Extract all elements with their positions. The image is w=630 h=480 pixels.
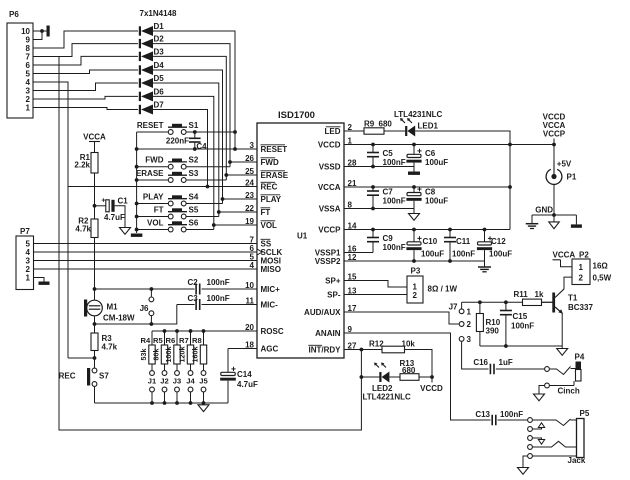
svg-text:C3: C3 bbox=[188, 294, 199, 303]
svg-text:MISO: MISO bbox=[261, 265, 281, 274]
svg-text:P1: P1 bbox=[567, 173, 577, 182]
label U1 bbox=[297, 232, 308, 241]
svg-text:220nF: 220nF bbox=[166, 137, 189, 146]
svg-text:ROSC: ROSC bbox=[261, 327, 284, 336]
svg-text:19: 19 bbox=[245, 217, 254, 226]
svg-text:18: 18 bbox=[245, 340, 254, 349]
wire VCCP row bbox=[344, 228, 510, 232]
wire FT row bbox=[219, 211, 257, 213]
svg-text:VSSP2: VSSP2 bbox=[315, 257, 341, 266]
svg-text:J1: J1 bbox=[148, 377, 157, 386]
U1 left pin 24 REC bbox=[245, 178, 278, 191]
wire J7.1 riser bbox=[461, 302, 463, 308]
svg-text:+: + bbox=[101, 198, 105, 205]
resistor R2 bbox=[75, 206, 98, 238]
wire R1 to node bbox=[94, 173, 96, 206]
svg-text:BC337: BC337 bbox=[568, 303, 593, 312]
wire D4 anode to x=222.5 bbox=[153, 70, 223, 204]
svg-text:P6: P6 bbox=[9, 10, 19, 19]
capacitor C5 bbox=[367, 145, 406, 168]
svg-text:ERASE: ERASE bbox=[261, 171, 289, 180]
wire P7.4 to SCLK bbox=[34, 251, 258, 253]
earth ground symbol bbox=[526, 215, 539, 229]
wire VCCA to P2.1 bbox=[561, 260, 573, 267]
capacitor C16 bbox=[473, 358, 513, 374]
svg-text:C6: C6 bbox=[425, 149, 436, 158]
U1 left pin 25 ERASE bbox=[245, 167, 289, 180]
svg-text:2: 2 bbox=[348, 123, 353, 132]
svg-text:+5V: +5V bbox=[557, 160, 572, 169]
amp input rail bbox=[462, 300, 553, 304]
svg-text:VSSA: VSSA bbox=[319, 205, 341, 214]
P4 shield contact bbox=[545, 381, 574, 388]
wire P6.8 to D1 bbox=[33, 31, 138, 48]
ground at P5 bbox=[518, 468, 529, 475]
P5 ring switch bbox=[528, 436, 545, 445]
capacitor C3 bbox=[177, 294, 230, 310]
wire D1 anode to x=235 bbox=[153, 31, 235, 149]
wire J7.3 to C16 bbox=[462, 342, 489, 369]
jumper J3 bbox=[173, 364, 181, 405]
svg-text:VCCA: VCCA bbox=[553, 251, 576, 260]
svg-text:10: 10 bbox=[245, 281, 254, 290]
diode D1 bbox=[139, 22, 164, 36]
node P6.10/P6.9 bbox=[40, 29, 44, 33]
wire VSSD row bbox=[344, 165, 414, 169]
wire D7 anode to x=207.5 bbox=[153, 110, 208, 187]
svg-text:1: 1 bbox=[467, 307, 472, 316]
capacitor C2 bbox=[188, 278, 230, 295]
svg-text:11: 11 bbox=[246, 296, 255, 305]
node D7/REC row bbox=[206, 185, 210, 189]
svg-text:R8: R8 bbox=[192, 336, 202, 345]
ground at C6 bbox=[408, 167, 420, 175]
svg-text:10k: 10k bbox=[402, 340, 416, 349]
capacitor C6 bbox=[406, 145, 448, 168]
svg-text:1k: 1k bbox=[535, 290, 544, 299]
svg-text:S1: S1 bbox=[189, 121, 199, 130]
wire P7.3 to MOSI bbox=[34, 260, 258, 262]
wire bus to S4 left bbox=[135, 202, 168, 206]
wire bus to P1 bbox=[510, 139, 556, 169]
wire SP- to P3 bbox=[344, 294, 407, 296]
switch S2 (FWD) bbox=[145, 156, 199, 170]
wire P6.10 to ground bbox=[33, 30, 42, 32]
wire P6.4 to REC net (vertical) bbox=[33, 82, 68, 358]
svg-text:100nF: 100nF bbox=[207, 294, 230, 303]
svg-text:R5: R5 bbox=[153, 336, 163, 345]
svg-text:S6: S6 bbox=[189, 218, 199, 227]
wire PLAY row bbox=[223, 198, 258, 200]
wire SP+ to P3 bbox=[344, 281, 407, 288]
wire P1 to ground rail bbox=[535, 184, 554, 215]
svg-text:PLAY: PLAY bbox=[261, 195, 282, 204]
wire R11 to T1 base bbox=[542, 301, 553, 303]
wire P6.7 to INT/RDY (vertical) bbox=[59, 57, 361, 431]
svg-text:VSSD: VSSD bbox=[319, 163, 341, 172]
svg-text:8Ω / 1W: 8Ω / 1W bbox=[428, 285, 458, 294]
wire C16 to P4 contact bbox=[496, 368, 545, 370]
svg-text:Jack: Jack bbox=[568, 456, 586, 465]
resistor R9 680 bbox=[364, 120, 392, 135]
U1 left pin 10 MIC+ bbox=[245, 281, 280, 294]
svg-text:C14: C14 bbox=[237, 370, 252, 379]
svg-text:REC: REC bbox=[59, 372, 76, 381]
node mic+/R2 bbox=[93, 287, 97, 291]
svg-text:RESET: RESET bbox=[137, 121, 164, 130]
jumper J6 bbox=[140, 287, 154, 326]
switch S4 (PLAY) bbox=[143, 192, 199, 206]
svg-text:2: 2 bbox=[467, 320, 472, 329]
svg-text:LTL4221NLC: LTL4221NLC bbox=[363, 393, 412, 402]
ground at T1 bbox=[557, 346, 568, 355]
svg-text:FT: FT bbox=[154, 205, 164, 214]
U1 right pin 21 VCCA bbox=[318, 179, 357, 192]
wire D2 anode to x=230 bbox=[153, 44, 230, 167]
svg-text:VOL: VOL bbox=[147, 218, 164, 227]
wire RESET row bbox=[135, 147, 257, 151]
wire P6.9 bbox=[33, 31, 42, 40]
svg-text:12: 12 bbox=[348, 253, 357, 262]
svg-text:R7: R7 bbox=[179, 336, 189, 345]
label Cinch bbox=[558, 387, 580, 396]
svg-text:MIC-: MIC- bbox=[261, 301, 279, 310]
svg-text:R11: R11 bbox=[514, 290, 529, 299]
svg-text:S4: S4 bbox=[189, 192, 199, 201]
U1 right pin 9 ANAIN bbox=[315, 325, 352, 338]
resistor R5 80k bbox=[152, 331, 168, 364]
ground at jumper rail bbox=[198, 405, 209, 412]
svg-text:4.7k: 4.7k bbox=[102, 343, 118, 352]
svg-text:J2: J2 bbox=[160, 377, 168, 386]
ground bar at bus bottom bbox=[131, 234, 143, 237]
U1 right pin 28 VSSD bbox=[319, 158, 357, 171]
svg-text:S7: S7 bbox=[99, 372, 109, 381]
wire S7 to ground rail bbox=[94, 387, 96, 403]
resistor R6 100k bbox=[164, 331, 180, 364]
label ISD1700 bbox=[278, 110, 315, 121]
svg-text:FT: FT bbox=[261, 208, 271, 217]
supply VCCD label (bottom) bbox=[420, 384, 443, 393]
svg-text:23: 23 bbox=[245, 191, 254, 200]
U1 right pin 16 VSSP1 bbox=[315, 244, 357, 257]
svg-text:4.7uF: 4.7uF bbox=[104, 213, 125, 222]
capacitor C7 bbox=[367, 187, 406, 209]
svg-text:0,5W: 0,5W bbox=[593, 274, 612, 283]
supply labels VCCD VCCA VCCP bbox=[543, 113, 566, 139]
capacitor C11 bbox=[444, 230, 475, 262]
wire MIC+ row left bbox=[95, 288, 195, 290]
svg-text:S2: S2 bbox=[189, 156, 199, 165]
supply VCCA at P2 bbox=[553, 251, 576, 260]
capacitor C14 bbox=[220, 349, 258, 404]
U1 left pin 11 MIC- bbox=[246, 296, 279, 309]
wire S4 right bbox=[186, 197, 224, 203]
diode D4 bbox=[139, 61, 164, 75]
svg-text:C8: C8 bbox=[425, 188, 436, 197]
wire T1 collector to P2 bbox=[564, 277, 572, 289]
svg-text:S5: S5 bbox=[189, 205, 199, 214]
U1 left pin 23 PLAY bbox=[245, 191, 282, 204]
diode D7 bbox=[139, 101, 164, 115]
svg-text:CM-18W: CM-18W bbox=[103, 314, 135, 323]
svg-text:680: 680 bbox=[379, 120, 393, 129]
svg-text:RESET: RESET bbox=[261, 145, 288, 154]
wire R12 to VCCD node bbox=[405, 350, 433, 378]
svg-text:53k: 53k bbox=[139, 349, 148, 361]
svg-text:C11: C11 bbox=[456, 237, 471, 246]
wire S3 right bbox=[186, 173, 228, 180]
svg-text:3: 3 bbox=[467, 335, 472, 344]
svg-text:INT/RDY: INT/RDY bbox=[309, 346, 342, 355]
switch S7 (REC) bbox=[59, 358, 110, 386]
svg-text:P5: P5 bbox=[580, 409, 590, 418]
svg-text:C15: C15 bbox=[513, 312, 528, 321]
svg-text:S3: S3 bbox=[189, 169, 199, 178]
svg-text:D7: D7 bbox=[154, 101, 165, 110]
svg-text:100nF: 100nF bbox=[383, 243, 406, 252]
svg-text:4: 4 bbox=[250, 261, 255, 270]
ground at P7.1 bbox=[39, 282, 50, 285]
svg-text:R9: R9 bbox=[364, 120, 375, 129]
svg-text:13: 13 bbox=[348, 286, 357, 295]
capacitor C4 bbox=[166, 130, 207, 151]
svg-text:1uF: 1uF bbox=[499, 358, 513, 367]
LED LED2 bbox=[361, 363, 411, 402]
connector P7 bbox=[16, 227, 34, 290]
wire LED row / R9 bbox=[344, 130, 364, 132]
svg-text:MIC+: MIC+ bbox=[261, 285, 281, 294]
U1 right pin 14 VCCP bbox=[318, 221, 357, 234]
svg-text:100uF: 100uF bbox=[425, 197, 448, 206]
U1 right pin 1 VCCD bbox=[318, 136, 353, 149]
wire AUD/AUX to J7.2 bbox=[344, 312, 459, 324]
node R1/R2/C1 bbox=[93, 204, 97, 208]
svg-text:C12: C12 bbox=[491, 237, 506, 246]
svg-text:J3: J3 bbox=[173, 377, 181, 386]
ground rail (jumpers) bbox=[95, 402, 229, 404]
svg-text:J5: J5 bbox=[199, 377, 208, 386]
wire VOL row bbox=[214, 224, 257, 226]
U1 left pin 6 SCLK bbox=[250, 244, 283, 257]
svg-text:J6: J6 bbox=[140, 304, 149, 313]
connector P6 bbox=[7, 10, 33, 118]
jumper J2 bbox=[160, 364, 168, 405]
wire S2 right bbox=[186, 160, 232, 167]
svg-text:14: 14 bbox=[348, 221, 357, 230]
svg-text:C16: C16 bbox=[473, 358, 488, 367]
U1 right pin 12 VSSP2 bbox=[315, 253, 357, 266]
wire REC row bbox=[68, 186, 257, 188]
wire D3 anode to x=226.3 bbox=[153, 56, 226, 180]
wire R13 to VCCD bbox=[419, 375, 434, 382]
svg-text:VCCD: VCCD bbox=[318, 141, 341, 150]
resistor R12 10k bbox=[369, 340, 415, 353]
svg-text:LED1: LED1 bbox=[418, 122, 439, 131]
U1 left pin 4 MISO bbox=[250, 261, 281, 274]
jumper J1 bbox=[148, 364, 157, 405]
svg-text:16Ω: 16Ω bbox=[593, 262, 609, 271]
svg-text:D1: D1 bbox=[154, 22, 165, 31]
AGC gain rail bbox=[152, 329, 257, 333]
LED LED1 bbox=[394, 110, 443, 137]
svg-text:100nF: 100nF bbox=[383, 197, 406, 206]
wire S1 right to D1 net bbox=[186, 130, 237, 134]
capacitor C9 bbox=[367, 230, 406, 253]
wire D6 anode to x=213.8 bbox=[153, 96, 214, 229]
svg-text:C9: C9 bbox=[383, 234, 394, 243]
diode D5 bbox=[139, 74, 164, 88]
wire P6.6 to D3 bbox=[33, 56, 138, 65]
svg-text:M1: M1 bbox=[107, 303, 119, 312]
diode D3 bbox=[139, 47, 164, 61]
U1 left pin 20 ROSC bbox=[245, 323, 284, 336]
amp ground rail bbox=[480, 344, 562, 348]
svg-text:100uF: 100uF bbox=[489, 250, 512, 259]
bar ground symbol bbox=[571, 215, 582, 228]
connector P4 (cinch) bbox=[575, 353, 585, 382]
ground at C1 bbox=[120, 228, 131, 235]
jumper J5 bbox=[199, 364, 208, 405]
connector P1 (+5V) bbox=[546, 160, 577, 185]
ground at C12 bbox=[478, 261, 491, 272]
svg-text:24: 24 bbox=[245, 178, 254, 187]
wire P5 sleeve to ground bbox=[523, 456, 527, 468]
svg-text:D2: D2 bbox=[154, 35, 165, 44]
wire P6.7 to D2 bbox=[33, 44, 138, 57]
P4 tip contact bbox=[545, 367, 576, 375]
svg-text:100uF: 100uF bbox=[421, 250, 444, 259]
wire LED1 to +5V bus bbox=[415, 131, 510, 230]
svg-text:2: 2 bbox=[579, 274, 584, 283]
label 7x1N4148 bbox=[140, 9, 177, 18]
wire P4 shield to ground bbox=[539, 386, 544, 395]
U1 left pin 22 FT bbox=[245, 204, 270, 217]
label 16R 0.5W bbox=[593, 262, 612, 283]
ground at P6.10 bbox=[42, 26, 50, 37]
svg-text:100uF: 100uF bbox=[425, 158, 448, 167]
svg-text:2.2k: 2.2k bbox=[74, 161, 90, 170]
svg-text:100nF: 100nF bbox=[500, 410, 523, 419]
capacitor C12 bbox=[477, 230, 512, 262]
svg-text:SP-: SP- bbox=[327, 291, 341, 300]
wire bus to S1 left bbox=[137, 131, 168, 133]
wire P7.5 to SS bbox=[34, 243, 258, 245]
svg-text:C13: C13 bbox=[475, 410, 490, 419]
svg-text:3: 3 bbox=[250, 141, 255, 150]
svg-text:390: 390 bbox=[486, 327, 500, 336]
svg-text:PLAY: PLAY bbox=[143, 192, 164, 201]
wire VSSA row bbox=[344, 207, 414, 211]
svg-text:7x1N4148: 7x1N4148 bbox=[140, 9, 177, 18]
U1 right pin 15 SP+ bbox=[325, 272, 357, 285]
svg-text:T1: T1 bbox=[568, 294, 578, 303]
IC U1 ISD1700 outline bbox=[257, 123, 344, 358]
resistor R3 bbox=[91, 324, 118, 352]
wire R9 to LED1 bbox=[384, 130, 405, 132]
U1 right pin 13 SP- bbox=[327, 286, 357, 299]
svg-text:REC: REC bbox=[261, 183, 278, 192]
svg-text:P7: P7 bbox=[20, 227, 30, 236]
svg-text:C7: C7 bbox=[383, 188, 394, 197]
U1 right pin 2 LED bbox=[325, 123, 353, 136]
svg-text:17: 17 bbox=[348, 304, 357, 313]
wire C13 to P5 bbox=[498, 419, 528, 421]
label 8R 1W bbox=[428, 285, 458, 294]
node R3/S7/REC bbox=[68, 351, 96, 360]
svg-text:SP+: SP+ bbox=[325, 277, 341, 286]
svg-text:100nF: 100nF bbox=[452, 250, 475, 259]
wire P7.1 to ground bbox=[34, 278, 45, 282]
jumper J4 bbox=[186, 364, 195, 405]
svg-text:D4: D4 bbox=[154, 61, 165, 70]
wire INT/RDY row bbox=[344, 348, 382, 352]
resistor R10 390 bbox=[476, 302, 500, 346]
svg-text:25: 25 bbox=[245, 167, 254, 176]
svg-text:D5: D5 bbox=[154, 74, 165, 83]
svg-text:C1: C1 bbox=[118, 197, 129, 206]
svg-text:15: 15 bbox=[348, 272, 357, 281]
wire INT to LED2 bbox=[360, 350, 364, 379]
P5 tip switch bbox=[528, 423, 545, 432]
svg-text:U1: U1 bbox=[297, 232, 308, 241]
wire VCCD row bbox=[344, 143, 512, 147]
svg-text:26: 26 bbox=[245, 154, 254, 163]
capacitor C15 bbox=[500, 302, 534, 346]
svg-text:VOL: VOL bbox=[261, 221, 278, 230]
svg-text:AGC: AGC bbox=[261, 345, 279, 354]
svg-text:680: 680 bbox=[402, 366, 416, 375]
switch S1 (RESET) bbox=[137, 121, 199, 135]
svg-text:100nF: 100nF bbox=[383, 158, 406, 167]
wire VCCA row bbox=[344, 185, 512, 189]
svg-text:LTL4231NLC: LTL4231NLC bbox=[394, 110, 443, 119]
wire LED2 to R13 bbox=[390, 376, 401, 378]
wire VSSP1 row bbox=[344, 252, 373, 254]
diode D2 bbox=[139, 35, 164, 49]
wire ERASE row bbox=[226, 174, 257, 176]
resistor R7 120k bbox=[178, 331, 194, 364]
capacitor C8 bbox=[406, 187, 448, 209]
svg-text:J7: J7 bbox=[449, 303, 458, 312]
wire mic- row bbox=[93, 305, 177, 326]
svg-text:VCCP: VCCP bbox=[318, 226, 341, 235]
U1 left pin 26 FWD bbox=[245, 154, 279, 167]
svg-text:ISD1700: ISD1700 bbox=[278, 110, 315, 121]
svg-text:21: 21 bbox=[348, 179, 357, 188]
svg-text:C10: C10 bbox=[423, 237, 438, 246]
wire ANAIN to C13 bbox=[344, 333, 491, 420]
U1 right pin 17 AUD/AUX bbox=[304, 304, 357, 317]
svg-text:P3: P3 bbox=[411, 267, 421, 276]
capacitor C10 bbox=[406, 230, 444, 262]
U1 left pin 18 AGC bbox=[245, 340, 278, 353]
svg-text:4.7k: 4.7k bbox=[75, 225, 91, 234]
resistor R8 160k bbox=[191, 331, 207, 364]
svg-text:ANAIN: ANAIN bbox=[315, 329, 341, 338]
wire FWD row bbox=[230, 161, 257, 163]
resistor R13 680 bbox=[400, 359, 420, 380]
svg-text:100nF: 100nF bbox=[511, 322, 534, 331]
P5 tip contact bbox=[528, 418, 577, 426]
ground at C8 bbox=[409, 209, 420, 221]
switch S3 (ERASE) bbox=[136, 169, 199, 183]
left ground bus bbox=[136, 132, 138, 233]
ground rail bbox=[532, 213, 576, 217]
svg-text:R6: R6 bbox=[165, 336, 175, 345]
supply VCCA label bbox=[83, 133, 106, 142]
diode D6 bbox=[139, 87, 164, 101]
